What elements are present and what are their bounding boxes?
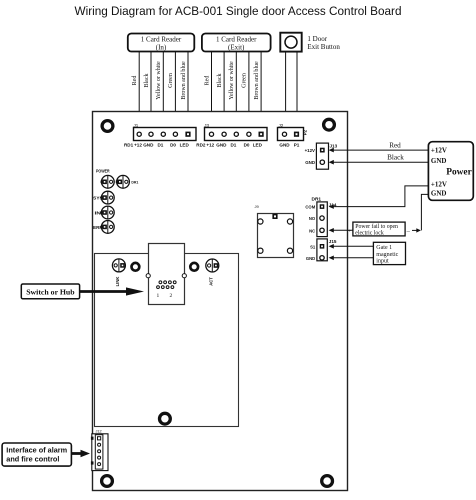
svg-text:1: 1	[157, 293, 160, 299]
svg-text:+12V: +12V	[431, 146, 447, 154]
DR1 label	[312, 196, 322, 202]
svg-text:COM: COM	[305, 205, 315, 210]
LED ERR	[93, 221, 114, 234]
svg-text:2: 2	[170, 293, 173, 299]
svg-text:GND: GND	[306, 256, 315, 261]
svg-text:GND: GND	[279, 143, 290, 148]
svg-text:GND: GND	[431, 157, 447, 165]
card reader (In) box	[128, 34, 195, 52]
board outline	[93, 112, 348, 491]
svg-text:and fire control: and fire control	[6, 455, 59, 464]
svg-text:Switch or Hub: Switch or Hub	[26, 287, 75, 296]
svg-text:LINK: LINK	[115, 277, 120, 287]
inner module outline	[95, 254, 239, 427]
mounting hole top-left	[102, 121, 113, 132]
connector J2	[278, 123, 308, 141]
svg-text:Wiring Diagram for ACB-001 Sin: Wiring Diagram for ACB-001 Single door A…	[75, 4, 402, 18]
svg-text:RD1: RD1	[124, 143, 134, 148]
svg-text:(In): (In)	[156, 43, 167, 51]
LED SYS	[93, 191, 114, 204]
gate 1 magnetic input box	[373, 242, 405, 264]
wire NC to lock plus	[329, 228, 353, 234]
svg-text:(Exit): (Exit)	[228, 43, 245, 51]
LED IN	[95, 206, 115, 219]
J1 pin labels	[124, 143, 189, 148]
connector J13	[305, 143, 338, 169]
wire GND to lock minus	[406, 194, 429, 234]
svg-text:–: –	[406, 228, 411, 235]
svg-text:electric lock: electric lock	[355, 230, 384, 236]
LED ACT	[206, 259, 219, 286]
svg-text:IN: IN	[95, 210, 102, 215]
svg-text:Power: Power	[446, 166, 472, 177]
svg-text:Green: Green	[242, 73, 248, 88]
svg-text:Black: Black	[217, 74, 223, 88]
svg-text:1 Door: 1 Door	[307, 35, 327, 43]
wire reader2 red	[204, 52, 211, 129]
ring right of RJ45	[190, 263, 198, 271]
mounting hole bottom-left	[102, 476, 113, 487]
svg-text:Gate 1: Gate 1	[376, 245, 392, 251]
svg-text:+12V: +12V	[431, 180, 447, 188]
svg-text:Red: Red	[204, 76, 210, 86]
svg-text:Power fail to open: Power fail to open	[355, 223, 398, 230]
svg-text:LED: LED	[180, 143, 190, 148]
RJ45 jack	[146, 244, 186, 305]
wire reader2 brown and blue	[254, 52, 261, 129]
wire reader2 yellow or white	[229, 52, 236, 129]
arrow alarm to J12	[71, 450, 90, 457]
svg-text:Exit Button: Exit Button	[307, 43, 340, 51]
svg-text:1 Card Reader: 1 Card Reader	[216, 35, 257, 43]
svg-text:P2: P2	[303, 129, 308, 135]
svg-text:ACT: ACT	[209, 277, 214, 286]
svg-text:DR1: DR1	[131, 180, 139, 185]
power fail to open electric lock box	[353, 222, 405, 236]
wire reader2 green	[242, 52, 249, 129]
svg-text:D0: D0	[170, 143, 176, 148]
svg-text:+12V: +12V	[305, 148, 315, 153]
wire GND to gate box	[329, 256, 374, 261]
title	[75, 4, 402, 18]
LED LINK	[112, 259, 125, 286]
wire S1 to gate box	[329, 244, 374, 249]
svg-text:D1: D1	[157, 143, 163, 148]
connector J14	[305, 202, 336, 237]
svg-text:GND: GND	[305, 160, 315, 165]
svg-text:J15: J15	[329, 239, 337, 244]
connector J12	[91, 430, 108, 471]
mounting hole bottom-right	[322, 476, 333, 487]
svg-text:NO: NO	[309, 216, 316, 221]
ring left of RJ45	[132, 263, 140, 271]
svg-text:Green: Green	[168, 73, 174, 88]
svg-text:Yellow or white: Yellow or white	[229, 61, 235, 100]
svg-text:Black: Black	[144, 74, 150, 88]
connector J15	[306, 239, 337, 261]
card reader (Exit) box	[202, 34, 271, 52]
wire reader1 green	[168, 52, 175, 129]
wire reader2 black	[217, 52, 224, 129]
LED POWER	[96, 169, 114, 189]
svg-text:+: +	[348, 228, 351, 234]
connector J1	[134, 123, 197, 141]
svg-text:input: input	[376, 259, 389, 265]
svg-text:GND: GND	[431, 189, 447, 197]
svg-text:magnetic: magnetic	[376, 252, 398, 258]
wire reader1 black	[144, 52, 151, 129]
wire exit button gnd	[285, 52, 287, 129]
svg-text:GND: GND	[143, 143, 154, 148]
wire reader1 yellow or white	[156, 52, 163, 129]
connector J3	[204, 123, 267, 141]
svg-text:Brown and blue: Brown and blue	[181, 61, 187, 100]
svg-text:J13: J13	[330, 143, 338, 148]
svg-text:D1: D1	[230, 143, 236, 148]
svg-text:J12: J12	[96, 430, 102, 434]
wire +12V to COM	[329, 186, 429, 209]
svg-text:+12: +12	[134, 143, 142, 148]
svg-text:LED: LED	[253, 143, 263, 148]
svg-text:POWER: POWER	[96, 169, 110, 174]
svg-text:S1: S1	[310, 244, 316, 249]
relay J9	[255, 204, 294, 258]
svg-text:Interface of alarm: Interface of alarm	[6, 446, 67, 455]
switch or hub box	[21, 284, 79, 299]
svg-text:GND: GND	[216, 143, 227, 148]
power supply box	[428, 142, 473, 201]
interface of alarm box	[2, 443, 71, 466]
mounting hole middle	[160, 413, 171, 424]
J2 pin labels	[279, 143, 299, 148]
svg-text:NC: NC	[309, 228, 315, 233]
wire black GND	[329, 154, 429, 165]
wire reader1 red	[132, 52, 139, 129]
svg-text:Brown and blue: Brown and blue	[254, 61, 260, 100]
arrow switch to rj45	[80, 287, 144, 295]
svg-text:+12: +12	[206, 143, 214, 148]
svg-text:RD2: RD2	[196, 143, 206, 148]
wire reader1 brown and blue	[181, 52, 188, 129]
svg-text:D0: D0	[244, 143, 250, 148]
LED DR1	[116, 175, 139, 188]
J3 pin labels	[196, 143, 262, 148]
door exit button	[280, 33, 340, 52]
svg-text:Black: Black	[387, 154, 404, 162]
svg-text:Yellow or white: Yellow or white	[156, 61, 162, 100]
mounting hole top-right	[324, 119, 335, 130]
wire red +12V	[329, 142, 429, 153]
wire exit button p1	[296, 52, 298, 129]
svg-text:Red: Red	[389, 142, 401, 150]
svg-text:Red: Red	[132, 76, 138, 86]
svg-text:P1: P1	[294, 143, 300, 148]
svg-text:1 Card Reader: 1 Card Reader	[141, 35, 182, 43]
